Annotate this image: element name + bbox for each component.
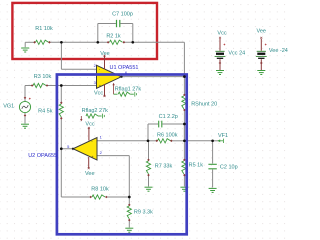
- resistor R9: [127, 206, 131, 219]
- ground (Vcc source): [216, 71, 224, 75]
- svg-text:Rflag1 27k: Rflag1 27k: [115, 86, 142, 92]
- resistor R1: [36, 40, 49, 44]
- flag resistor Rflag1: [113, 84, 115, 95]
- svg-text:R8 10k: R8 10k: [91, 187, 109, 193]
- power source Vee -24: [260, 37, 262, 39]
- ground (VG1): [21, 124, 29, 128]
- svg-text:R9 3.3k: R9 3.3k: [134, 210, 153, 216]
- svg-text:C7 100p: C7 100p: [112, 11, 133, 17]
- node junction at 129.3,197: [128, 196, 131, 199]
- wire right column x=184.4 top segment: [183, 42, 185, 96]
- ground (C2): [209, 188, 217, 192]
- node junction at 61.3,85.5: [60, 84, 63, 87]
- ground (R9): [125, 228, 133, 232]
- capacitor C1: [159, 121, 162, 128]
- resistor R5: [182, 161, 186, 174]
- node junction at 184.4,124.0: [183, 123, 186, 126]
- wire C2 column: [212, 141, 214, 164]
- svg-text:VF1: VF1: [218, 133, 228, 139]
- wire VG1 ground stub: [24, 113, 26, 124]
- svg-text:Vcc 24: Vcc 24: [228, 51, 245, 57]
- wire VG1 to R3: [24, 86, 26, 102]
- flag resistor Rflag2: [80, 116, 82, 120]
- node junction at 212.6,140.8: [211, 139, 214, 142]
- capacitor C7: [117, 20, 120, 27]
- svg-text:VG1: VG1: [3, 104, 14, 110]
- op-amp U2 OPA655: [73, 138, 97, 161]
- svg-text:Vcc: Vcc: [217, 31, 226, 37]
- svg-text:Vcc: Vcc: [94, 91, 103, 97]
- node junction at 184.4,76.6: [183, 75, 186, 78]
- wire R5 to ground: [183, 174, 185, 187]
- svg-text:Rflag2 27k: Rflag2 27k: [82, 108, 109, 114]
- svg-text:Vee: Vee: [100, 51, 109, 57]
- svg-text:C2 10p: C2 10p: [220, 165, 238, 171]
- op-amp U1 OPA551 supply stubs: [104, 55, 106, 69]
- ground (R5): [180, 187, 188, 191]
- resistor R7: [148, 141, 150, 161]
- node junction at 61.3,148.75: [60, 147, 63, 150]
- ground (Vee source): [257, 71, 265, 75]
- VF1 output probe: [219, 139, 223, 143]
- svg-text:R2 1k: R2 1k: [106, 34, 121, 40]
- resistor R2: [110, 40, 123, 44]
- svg-text:Vee: Vee: [256, 28, 265, 34]
- node junction at 61.4,42.3: [60, 41, 63, 44]
- svg-text:RShunt 20: RShunt 20: [191, 102, 217, 108]
- svg-text:R6 100k: R6 100k: [157, 133, 178, 139]
- wire RShunt to R6 node: [183, 109, 185, 161]
- power source Vcc 24: [219, 37, 221, 39]
- wire R9 column: [128, 197, 130, 206]
- wire R8 row: [61, 196, 91, 198]
- svg-text:Vcc: Vcc: [85, 121, 94, 127]
- resistor R4: [59, 104, 63, 117]
- node junction at 97.8,42.3: [96, 41, 99, 44]
- node junction at 184.4,140.8: [183, 139, 186, 142]
- resistor R6: [158, 139, 171, 143]
- svg-text:R3 10k: R3 10k: [34, 74, 52, 80]
- wire U1 output row: [121, 76, 184, 78]
- op-amp U2 OPA655 supply stubs: [88, 128, 90, 141]
- resistor RShunt: [182, 96, 186, 109]
- wire U2 pin1 row: [97, 140, 148, 142]
- node junction at 148.0,140.8: [147, 139, 150, 142]
- node junction at 132.8,42.3: [131, 41, 134, 44]
- wire R1 row to R2 row y=42.3: [25, 41, 35, 43]
- op-amp U1 OPA551: [97, 65, 122, 88]
- wire ground stub R1: [24, 42, 26, 47]
- wire left rail R4: [60, 86, 62, 104]
- svg-text:R7 33k: R7 33k: [155, 163, 173, 169]
- wire C7 loop: [97, 24, 99, 43]
- capacitor C2: [208, 164, 216, 169]
- svg-text:C1 2.2p: C1 2.2p: [159, 114, 178, 120]
- voltage source VG1: [19, 101, 30, 112]
- wire U2 output: [61, 148, 73, 150]
- resistor R8: [92, 195, 105, 199]
- annotation blue selection rectangle: [57, 75, 187, 235]
- annotation red selection rectangle: [12, 3, 157, 59]
- wire R3 to U1 pin3: [46, 85, 97, 87]
- wire R6 leads: [148, 140, 158, 142]
- svg-text:R1 10k: R1 10k: [35, 26, 53, 32]
- wire output row to VF1: [184, 140, 212, 142]
- ground (R1): [21, 48, 29, 52]
- wire node to U1 pin2: [60, 42, 62, 69]
- svg-text:Vee -24: Vee -24: [269, 48, 288, 54]
- wire U2 pin2 to R8/R9 junction: [97, 155, 129, 157]
- svg-text:U2 OPA655: U2 OPA655: [28, 153, 57, 159]
- svg-text:Vee: Vee: [85, 171, 94, 177]
- ground (R7): [145, 187, 153, 191]
- svg-text:R5 1k: R5 1k: [189, 163, 204, 169]
- wire C1 branch: [147, 124, 149, 141]
- svg-text:R4 5k: R4 5k: [38, 109, 53, 115]
- resistor R3: [33, 83, 46, 87]
